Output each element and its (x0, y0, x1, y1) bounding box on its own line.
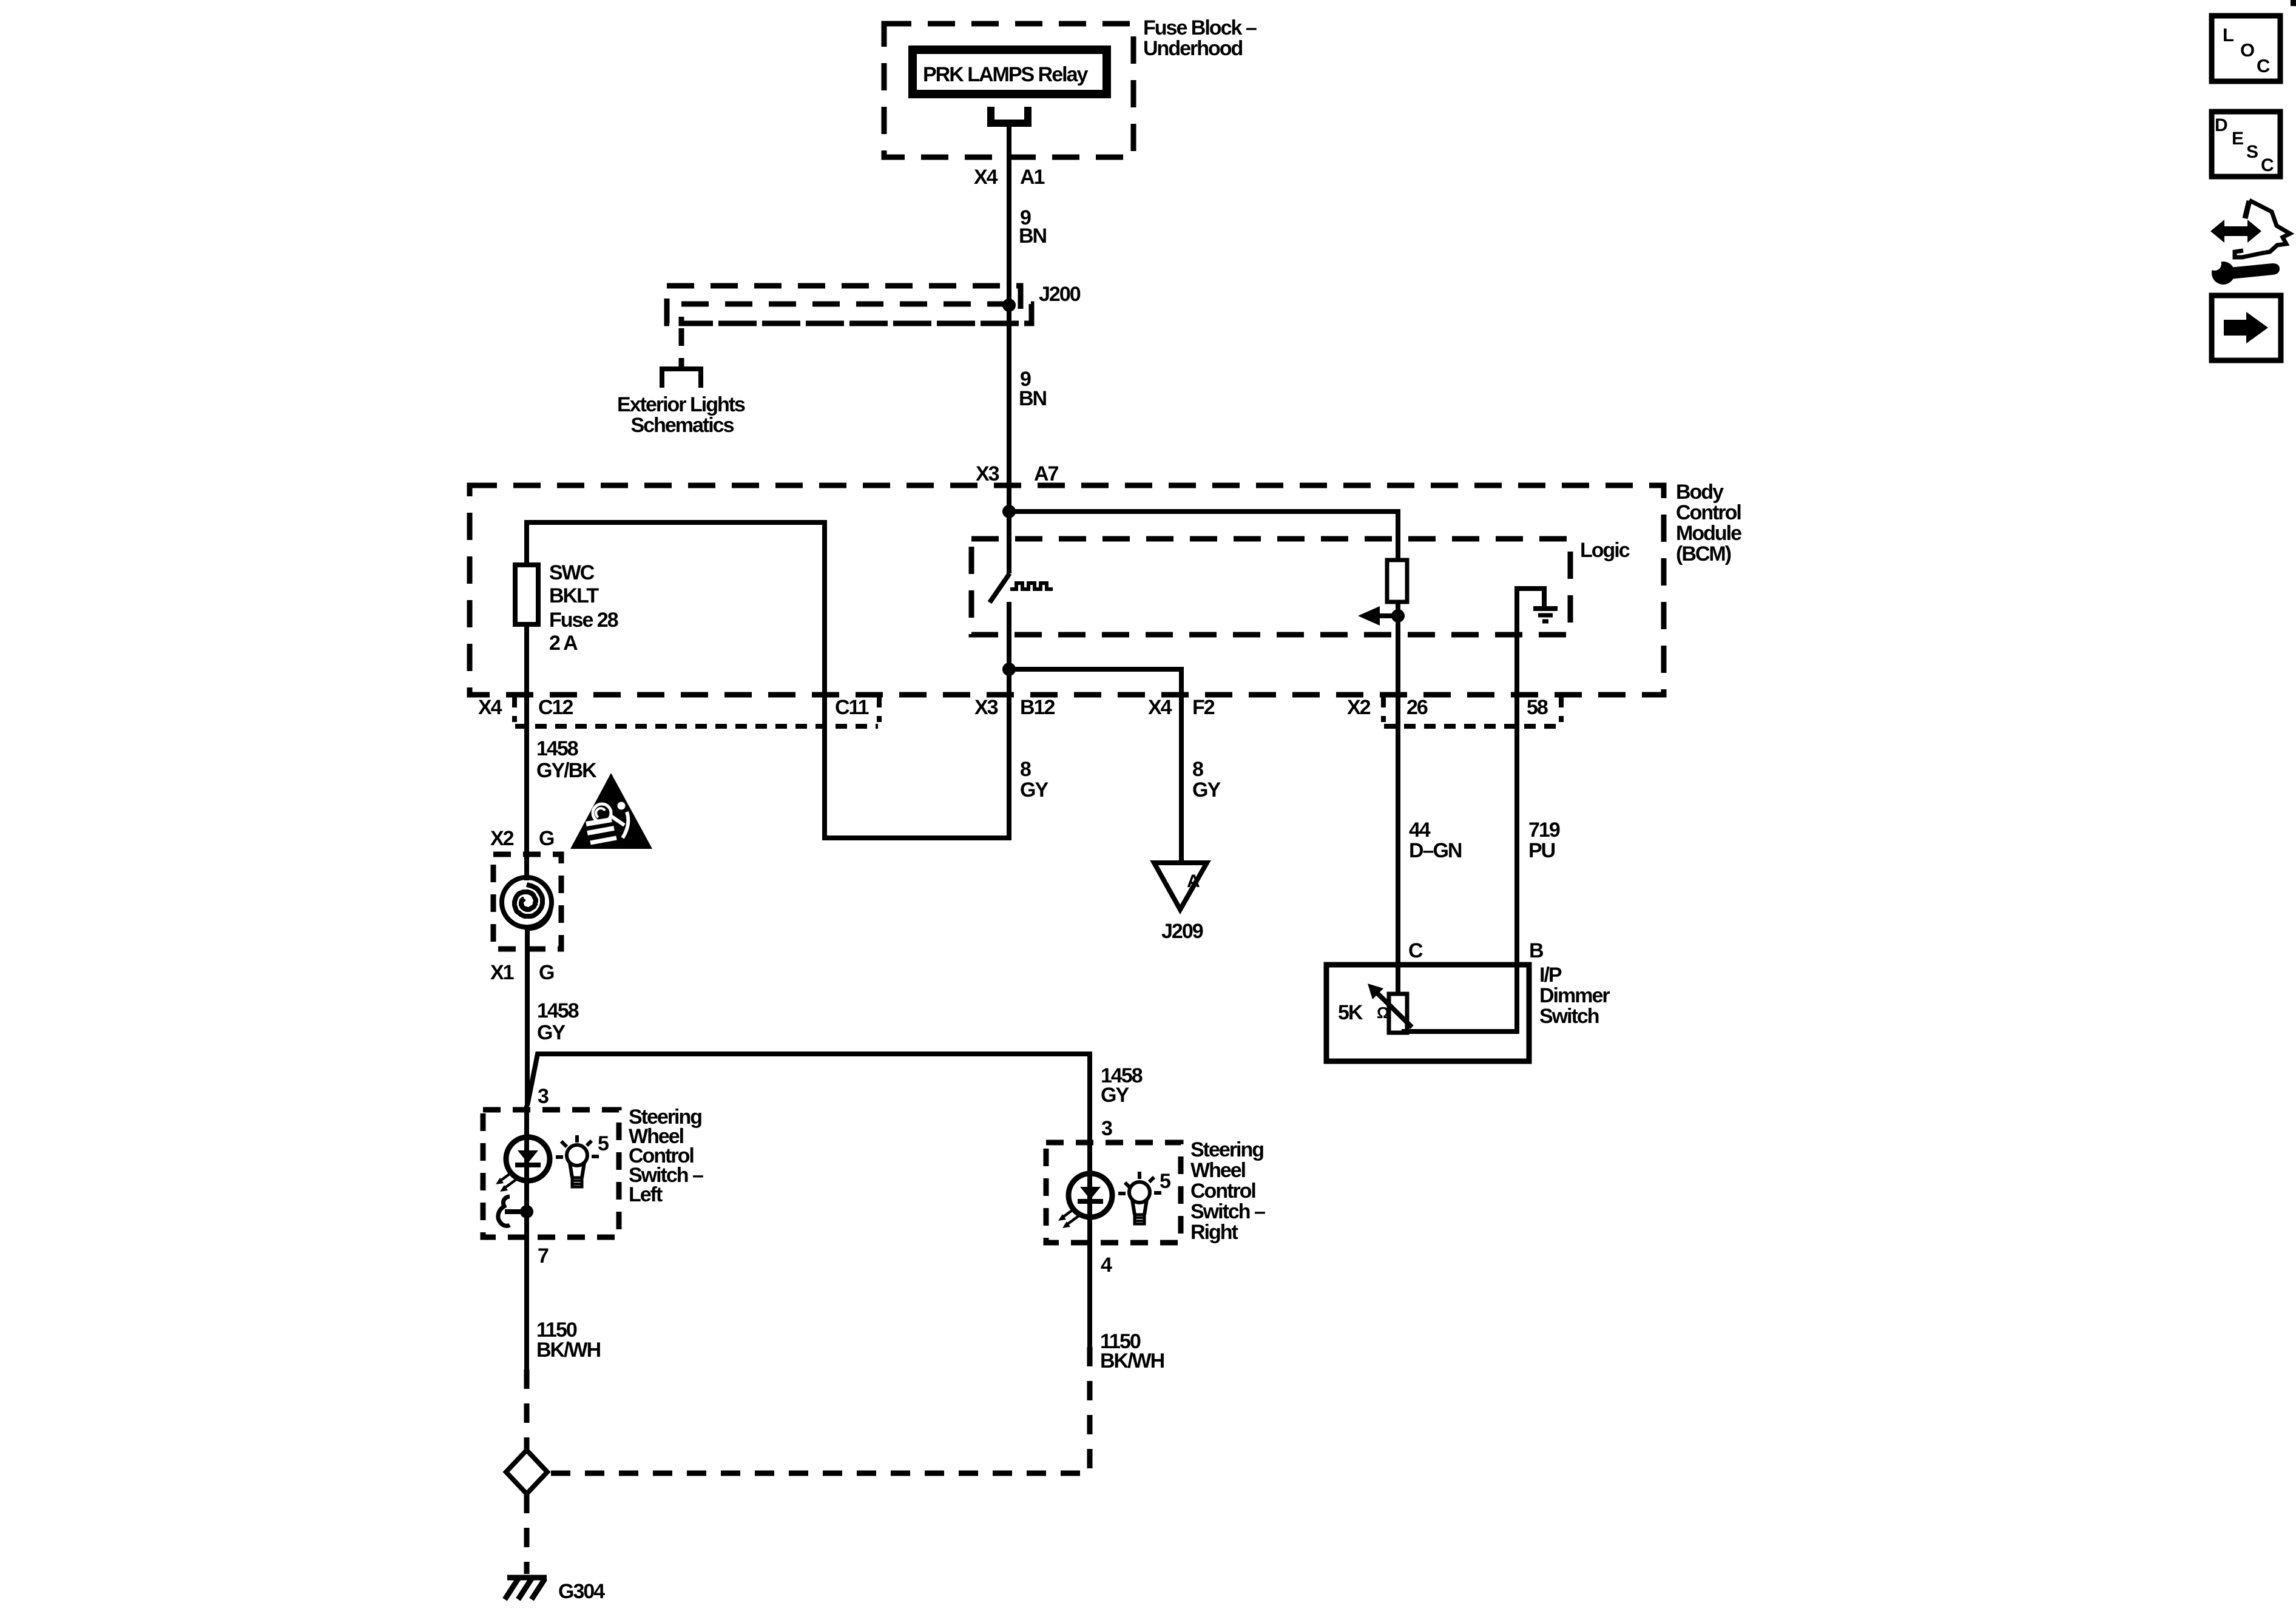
switch S1 upper contact wire (1007, 511, 1011, 573)
wire C into potentiometer (1396, 965, 1400, 996)
svg-text:(BCM): (BCM) (1676, 542, 1731, 565)
wire: B12 node to F2 (1009, 669, 1181, 863)
svg-text:D: D (2215, 115, 2227, 135)
svg-text:3: 3 (538, 1085, 549, 1108)
svg-text:44: 44 (1409, 819, 1431, 842)
connector X2 dashed outline (1381, 696, 1386, 722)
dashed wire right BK/WH down and across to diamond (550, 1347, 1090, 1473)
svg-text:2 A: 2 A (549, 632, 578, 655)
switch S1 blade (990, 573, 1010, 603)
switch contact hook (498, 1197, 510, 1226)
LOC icon box (2212, 16, 2280, 81)
svg-text:C11: C11 (835, 696, 869, 719)
LED D2 cathode bar (1078, 1199, 1103, 1204)
svg-text:Switch –: Switch – (1190, 1200, 1265, 1223)
branch wire to right switch (527, 1054, 1090, 1143)
wire: coil to X1 down (525, 925, 530, 1106)
ground G304 symbol (505, 1578, 547, 1599)
svg-text:Exterior Lights: Exterior Lights (617, 393, 745, 416)
svg-text:G: G (539, 961, 554, 984)
coil exit arc (528, 910, 550, 928)
dashed wire left BK/WH to splice diamond (524, 1369, 530, 1450)
contact link line (505, 1209, 527, 1214)
LED D2 diode triangle (1080, 1187, 1101, 1200)
coil (clockspring) spiral (502, 877, 552, 927)
svg-text:PRK LAMPS Relay: PRK LAMPS Relay (923, 63, 1088, 86)
wiper arrowhead (1358, 606, 1380, 626)
svg-text:Control: Control (1676, 501, 1741, 524)
svg-text:Underhood: Underhood (1143, 37, 1243, 60)
DESC icon box (2212, 112, 2280, 177)
svg-text:X4: X4 (974, 166, 998, 189)
svg-text:3: 3 (1101, 1117, 1112, 1140)
splice diamond S301 (506, 1450, 547, 1494)
svg-text:Fuse 28: Fuse 28 (549, 609, 618, 632)
relay K (PRK LAMPS Relay) box (913, 50, 1107, 94)
svg-text:C: C (2261, 155, 2274, 175)
svg-text:E: E (2232, 129, 2243, 149)
dashed lead to exterior lights connector (679, 328, 684, 366)
wire: relay A1 to J200 to BCM A7 (1007, 123, 1011, 511)
svg-text:X4: X4 (478, 696, 502, 719)
fuse block underhood dashed box (884, 24, 1133, 157)
svg-text:GY: GY (537, 1021, 566, 1044)
LED D1 diode triangle (518, 1150, 538, 1163)
svg-text:BN: BN (1019, 387, 1047, 410)
I/P dimmer switch box (1326, 965, 1529, 1061)
potentiometer wiper arrow (1374, 990, 1412, 1027)
svg-text:Module: Module (1676, 522, 1741, 545)
svg-text:L: L (2223, 24, 2234, 46)
svg-text:Right: Right (1190, 1221, 1238, 1244)
svg-text:A1: A1 (1020, 166, 1045, 189)
wire through left LED (524, 1106, 529, 1369)
wiper arrow line (1373, 613, 1398, 618)
go-to arrow (2224, 320, 2248, 336)
svg-text:Wheel: Wheel (1190, 1159, 1246, 1182)
node: wiper junction dot (1391, 609, 1405, 623)
svg-text:26: 26 (1406, 696, 1428, 719)
jump hand icon outline (2235, 200, 2290, 257)
svg-text:5: 5 (598, 1132, 609, 1155)
svg-text:D–GN: D–GN (1409, 839, 1462, 862)
svg-text:GY: GY (1192, 778, 1221, 802)
svg-text:X2: X2 (1347, 696, 1371, 719)
triangle connector A / J209 (1154, 863, 1207, 910)
logic dashed box (971, 539, 1570, 635)
svg-text:BK/WH: BK/WH (536, 1338, 601, 1362)
svg-text:Fuse Block –: Fuse Block – (1143, 16, 1257, 39)
wire: fuse to C12 down to coil (524, 624, 529, 880)
svg-text:GY: GY (1020, 778, 1048, 802)
LED D1 circle (506, 1137, 550, 1181)
wire: ground to pin 58 down (1514, 635, 1519, 965)
svg-text:X2: X2 (490, 827, 514, 850)
relay pin bracket (991, 107, 1028, 123)
svg-text:A7: A7 (1034, 462, 1059, 485)
svg-text:B: B (1529, 939, 1544, 962)
svg-text:719: 719 (1528, 819, 1560, 842)
resistor R1 (BCM internal) (1387, 560, 1407, 602)
svg-text:7: 7 (538, 1244, 549, 1268)
splice J200 front dashed box (681, 304, 1032, 323)
right switch dashed box (1046, 1143, 1181, 1243)
svg-text:F2: F2 (1192, 696, 1215, 719)
svg-text:C: C (2257, 55, 2270, 76)
LED D1 emission arrows (501, 1172, 513, 1180)
svg-text:X3: X3 (974, 696, 998, 719)
left switch dashed box (483, 1110, 619, 1237)
go-to arrow icon box (2212, 295, 2281, 360)
LED D2 emission arrows (1064, 1208, 1075, 1217)
corner mark top right (2291, 0, 2296, 6)
pulse control signal symbol (1010, 583, 1053, 589)
bulb L1 (567, 1145, 587, 1187)
svg-text:X3: X3 (976, 462, 999, 485)
BCM body control module dashed box (470, 485, 1664, 695)
splice J200 back dashed box (667, 286, 1021, 323)
svg-text:B12: B12 (1020, 696, 1055, 719)
wire pot bottom to B (1402, 965, 1517, 1031)
svg-text:S: S (2246, 142, 2258, 162)
coil dashed box (493, 854, 561, 949)
fuse F1 SWC BKLT (515, 565, 538, 624)
svg-text:A: A (1187, 871, 1200, 891)
bulb L1 rays (556, 1135, 599, 1157)
svg-text:O: O (2240, 39, 2254, 61)
svg-text:X4: X4 (1148, 696, 1172, 719)
ground symbol inside BCM logic (1517, 589, 1544, 635)
jump hand icon wrench (2229, 263, 2280, 279)
airbag icon white marks (593, 804, 611, 822)
svg-text:SWC: SWC (549, 561, 595, 584)
svg-text:1458: 1458 (537, 999, 579, 1022)
svg-text:I/P: I/P (1539, 964, 1562, 987)
LED D2 circle (1069, 1173, 1112, 1217)
svg-text:Dimmer: Dimmer (1539, 984, 1610, 1007)
svg-text:58: 58 (1527, 696, 1548, 719)
svg-text:Control: Control (1190, 1180, 1255, 1203)
svg-text:Ω: Ω (1377, 1004, 1389, 1022)
node B12 junction dot (1002, 663, 1016, 676)
SIR warning triangle (570, 773, 652, 849)
svg-text:BK/WH: BK/WH (1100, 1349, 1164, 1372)
node: J200 junction dot (1002, 299, 1016, 312)
node A7 junction dot (1002, 505, 1016, 518)
bulb L2 rays (1118, 1172, 1161, 1193)
svg-text:C12: C12 (538, 696, 573, 719)
wire: node 26 down (1396, 616, 1400, 965)
svg-text:GY/BK: GY/BK (536, 759, 597, 782)
svg-text:C: C (1408, 939, 1423, 962)
svg-text:G: G (539, 827, 554, 850)
svg-text:5K: 5K (1338, 1001, 1363, 1024)
svg-text:8: 8 (1020, 758, 1031, 781)
svg-text:8: 8 (1192, 758, 1203, 781)
svg-text:PU: PU (1528, 839, 1555, 862)
svg-text:GY: GY (1101, 1084, 1129, 1107)
svg-text:G304: G304 (558, 1580, 605, 1603)
bulb L2 (1129, 1182, 1150, 1224)
svg-text:BKLT: BKLT (549, 584, 599, 607)
wire: BCM internal top run C12 fuse to C11 (527, 522, 1009, 838)
wire resistor to node (1396, 602, 1400, 616)
svg-text:X1: X1 (490, 961, 514, 984)
node: contact dot (520, 1205, 533, 1218)
svg-text:5: 5 (1160, 1170, 1170, 1193)
LED D1 cathode bar (515, 1163, 541, 1167)
svg-text:Left: Left (629, 1183, 663, 1206)
svg-text:1458: 1458 (536, 737, 578, 760)
svg-text:4: 4 (1101, 1254, 1112, 1277)
switch S1 lower contact wire to B12 (1007, 602, 1011, 669)
svg-text:Logic: Logic (1580, 539, 1630, 562)
dashed wire diamond to ground (524, 1494, 530, 1574)
svg-text:Body: Body (1676, 481, 1724, 504)
wire: node to internal resistor (1009, 511, 1398, 560)
svg-text:J209: J209 (1161, 920, 1203, 943)
jump hand icon double arrow (2222, 226, 2250, 236)
svg-text:J200: J200 (1039, 283, 1081, 306)
potentiometer RV1 5K body (1389, 994, 1407, 1033)
svg-text:Switch: Switch (1539, 1005, 1599, 1028)
svg-text:Schematics: Schematics (631, 414, 734, 437)
wire through right LED (1087, 1143, 1092, 1347)
exterior lights half connector bracket (662, 369, 701, 388)
svg-text:BN: BN (1019, 224, 1047, 248)
svg-text:Steering: Steering (1190, 1138, 1263, 1161)
connector C12/C11 dashed outline (512, 696, 517, 722)
